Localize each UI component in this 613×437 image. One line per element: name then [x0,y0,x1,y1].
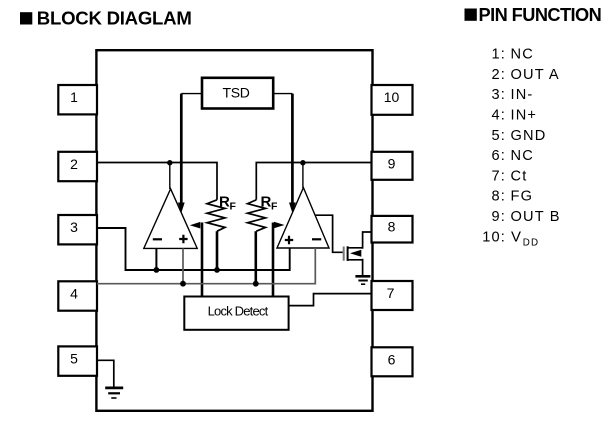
svg-text:V: V [511,229,522,246]
svg-text:R: R [261,194,272,211]
svg-text:PIN FUNCTION: PIN FUNCTION [479,5,602,25]
svg-text:Lock Detect: Lock Detect [208,304,269,319]
IC body outline [96,50,372,411]
transistor Q1 source arm [348,259,363,276]
wire op-amp A apex up [169,163,171,190]
op-amp B plus sign [285,236,293,244]
svg-text:OUT A: OUT A [511,67,560,83]
svg-text:5: 5 [70,350,78,366]
op-amp A plus sign [179,235,187,243]
svg-text:Ct: Ct [511,168,528,184]
svg-text:10:: 10: [482,230,506,246]
node dot OUT A / op-amp A [167,160,172,165]
node dot op-amp A minus on bus [154,267,160,273]
pin box 8 [372,216,413,243]
heading BLOCK DIAGLAM [20,7,192,28]
arrowhead down into op-amp B [289,203,296,214]
Lock Detect block [184,297,288,330]
svg-text:4: 4 [70,285,78,301]
svg-text:8:: 8: [492,189,506,205]
node dot op-amp A plus on gray bus [180,281,186,287]
ground at pin5 [105,388,123,398]
node dot OUT B / op-amp B [300,160,305,165]
op-amp B minus sign [312,238,321,240]
pin box 2 [58,152,97,181]
pin box 1 [58,85,97,114]
svg-text:9: 9 [388,155,396,171]
wire TSD left output vertical (thick) [180,94,183,204]
svg-text:5:: 5: [492,128,506,144]
wire op-amp B apex up [302,163,304,189]
wire IN- bus: pin3 elbow down to bus, to op-amp B plus input [97,228,290,270]
resistor RF2 zigzag [248,200,266,231]
resistor RF1 zigzag [207,200,225,231]
svg-text:NC: NC [511,47,534,63]
transistor Q1 body arrow (points left) [350,250,361,257]
feedback arrow into op-amp A (points left) [190,222,201,229]
pin box 6 [372,347,413,376]
svg-text:FG: FG [511,189,534,205]
svg-text:F: F [230,201,237,213]
svg-text:7:: 7: [492,168,506,184]
wire TSD left to arrow line [181,93,202,95]
wire TSD right output vertical (thick) [291,94,294,204]
resistor RF2 bottom lead (thick) [255,231,258,284]
svg-text:F: F [271,201,278,213]
feedback arrow into op-amp B (points right) [274,222,285,229]
pin box 10 [372,85,413,115]
pin box 3 [58,215,97,244]
svg-text:NC: NC [511,148,534,164]
svg-text:4:: 4: [492,108,506,124]
pin box 9 [372,152,413,180]
node dot RF1 on bus [214,267,220,273]
pin box 7 [372,281,413,310]
node dot RF2 on gray bus [253,281,259,287]
resistor RF1 bottom lead (thick) [216,231,219,270]
wire OUT B: RF2 top corner to pin9 [256,163,371,200]
svg-text:IN+: IN+ [511,108,538,124]
feedback line op-amp A to Lock Detect (thick) [201,223,204,297]
svg-text:GND: GND [511,128,547,144]
svg-text:2: 2 [70,156,78,172]
op-amp A triangle [144,189,197,249]
svg-text:1:: 1: [492,47,506,63]
svg-text:R: R [219,194,230,211]
svg-text:9:: 9: [492,209,506,225]
wire op-amp A plus input (gray) [182,248,184,283]
wire TSD right to arrow line [273,93,292,95]
wire Lock Detect to pin7 (Ct) [289,294,372,306]
svg-text:3:: 3: [492,87,506,103]
op-amp A minus sign [153,238,162,240]
svg-text:7: 7 [387,285,395,301]
svg-text:6: 6 [388,351,396,367]
transistor Q1 drain arm [348,232,372,249]
svg-text:BLOCK DIAGLAM: BLOCK DIAGLAM [37,7,192,28]
svg-text:IN-: IN- [511,87,534,103]
wire IN+ bus (gray): pin4 to op-amp B minus input [97,248,315,284]
svg-text:DD: DD [523,237,539,248]
pin box 4 [58,281,97,310]
svg-text:TSD: TSD [222,84,249,100]
arrowhead down into op-amp A [178,203,185,214]
pin box 5 [58,346,97,375]
wire OUT A: pin2 to RF1 top corner [97,163,217,200]
svg-text:8: 8 [388,219,396,235]
wire op-amp A minus input [155,248,157,270]
svg-text:1: 1 [70,89,78,105]
transistor Q1 MOSFET gate bar [343,247,345,261]
TSD block U-TSD [202,78,273,109]
svg-text:2:: 2: [492,67,506,83]
wire pin5 to ground [97,360,114,387]
svg-text:10: 10 [384,89,400,105]
feedback line op-amp B to Lock Detect (thick) [272,223,275,297]
svg-text:6:: 6: [492,148,506,164]
ground under MOSFET [355,276,370,284]
svg-text:3: 3 [70,219,78,235]
pin function list [482,47,560,249]
heading PIN FUNCTION [465,5,602,25]
svg-text:OUT B: OUT B [511,209,561,225]
transistor Q1 MOSFET channel bar [347,246,349,261]
wire op-amp B output to MOSFET gate [315,215,343,252]
op-amp B triangle [277,188,329,248]
